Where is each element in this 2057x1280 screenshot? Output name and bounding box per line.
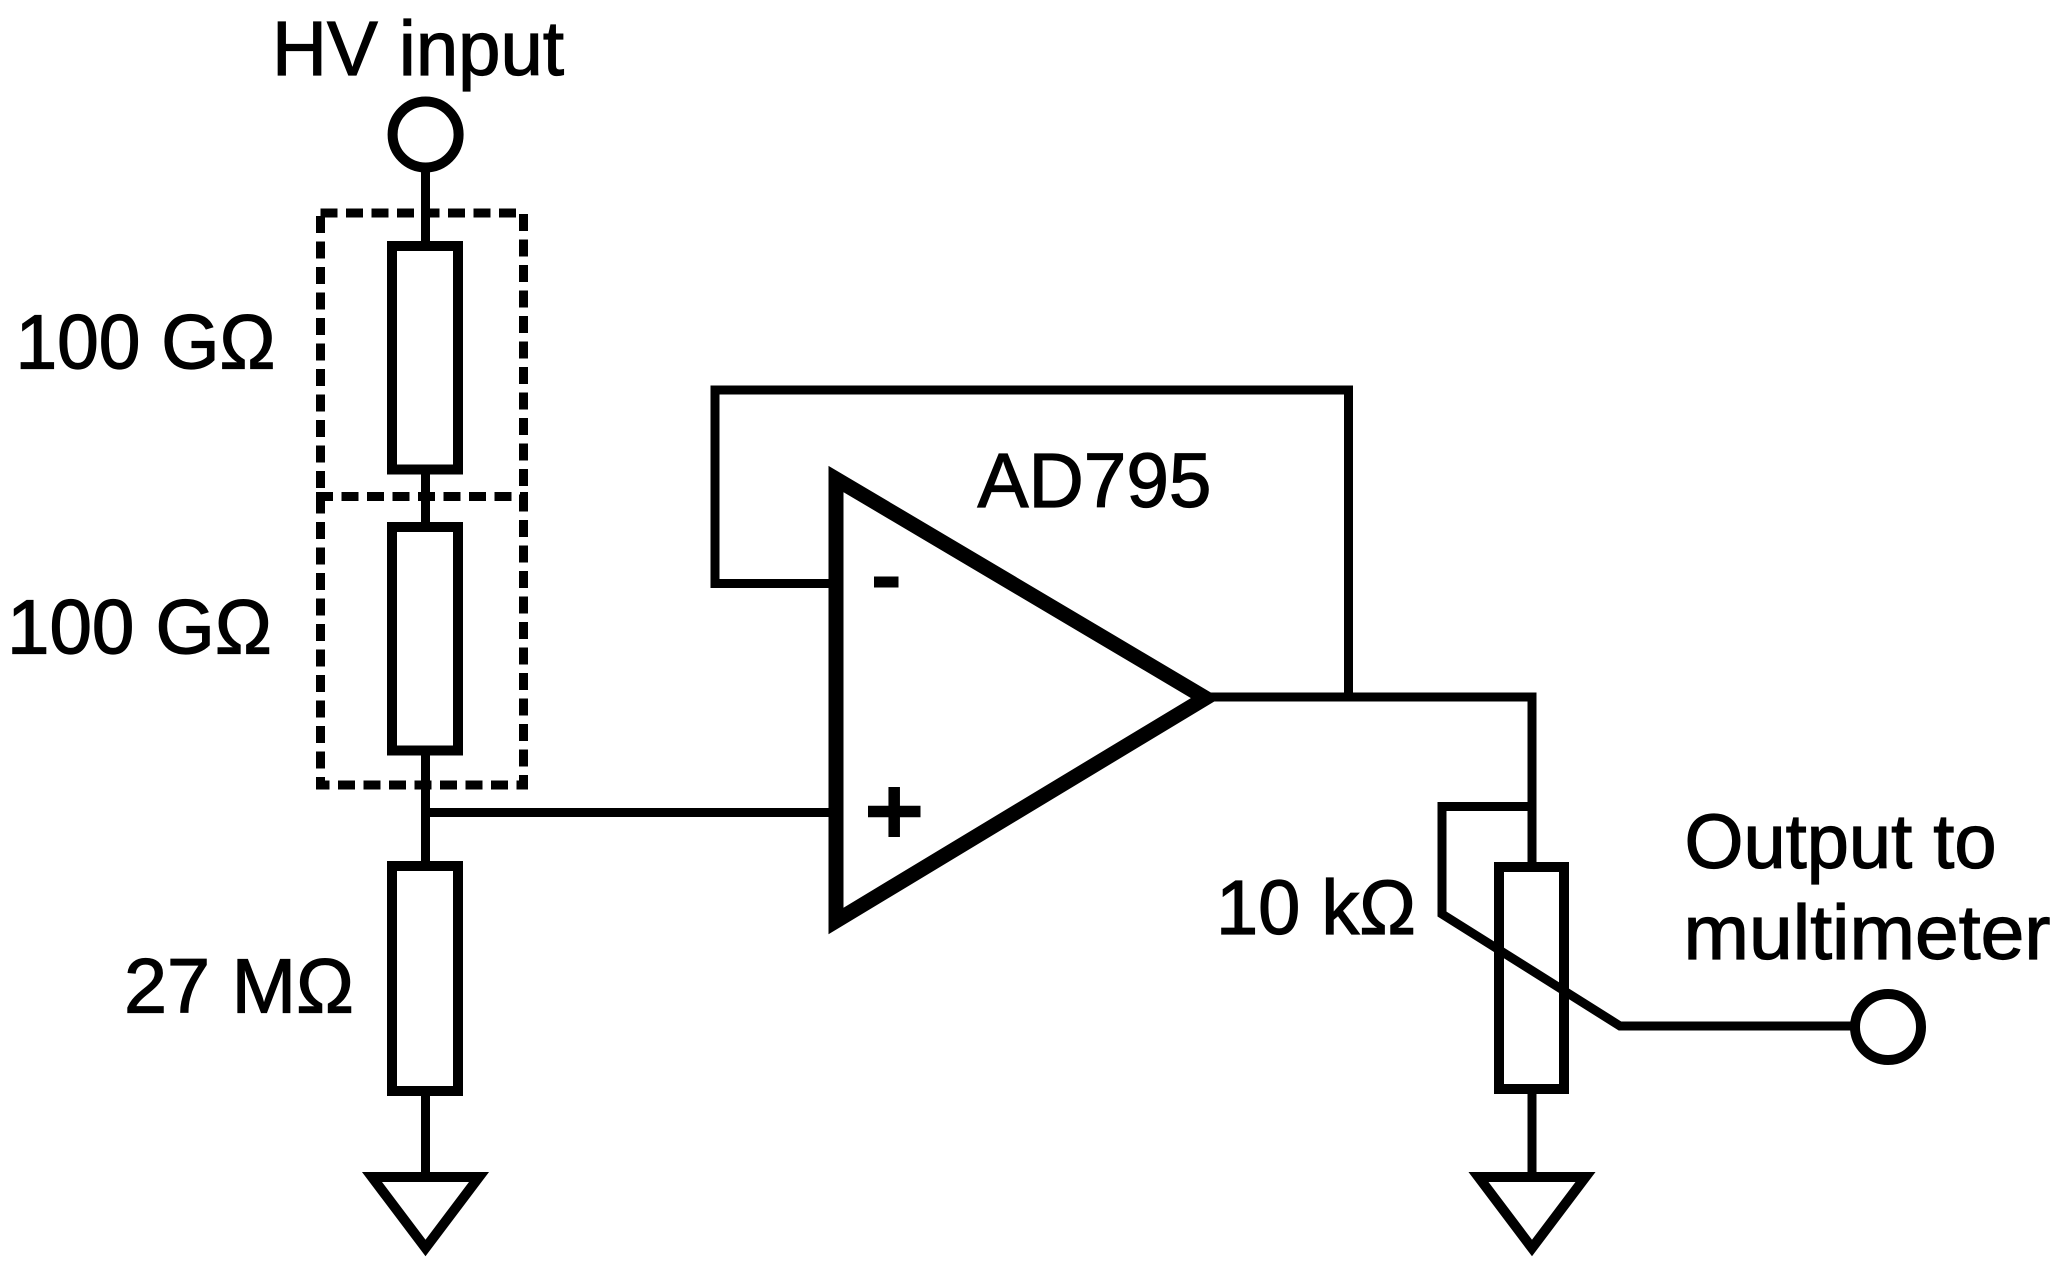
wire R4 to ground	[1528, 1085, 1537, 1177]
wire J1 to R1	[421, 168, 430, 251]
shield box (dashed) around R1 and R2	[321, 213, 524, 785]
svg-text:27 MΩ: 27 MΩ	[124, 944, 354, 1030]
svg-text:100 GΩ: 100 GΩ	[7, 585, 272, 671]
wire node A to op-amp noninverting input	[421, 808, 841, 817]
wire output down to potentiometer R4	[1528, 693, 1537, 871]
op-amp U1 AD795	[836, 479, 1206, 921]
resistor R3 27 MOhm	[392, 866, 458, 1091]
op-amp inverting input minus symbol	[874, 577, 899, 588]
feedback wire from output to inverting input	[715, 390, 1349, 701]
svg-text:Output to: Output to	[1685, 799, 1997, 885]
svg-text:multimeter: multimeter	[1684, 890, 2051, 976]
wire op-amp output	[1206, 693, 1537, 702]
wire R3 to ground	[421, 1087, 430, 1177]
svg-text:100 GΩ: 100 GΩ	[16, 299, 276, 385]
op-amp noninverting input plus symbol	[868, 806, 921, 818]
svg-text:HV input: HV input	[272, 6, 564, 92]
potentiometer R4 wiper arm and wire to output terminal	[1442, 807, 1858, 1027]
wire R1 to R2	[421, 465, 430, 532]
resistor R2 100 GOhm	[392, 527, 458, 751]
svg-text:10 kΩ: 10 kΩ	[1216, 865, 1416, 951]
svg-text:AD795: AD795	[978, 438, 1212, 524]
ground (right)	[1479, 1177, 1586, 1248]
resistor R1 100 GOhm	[392, 246, 458, 470]
wire R2 to node A and R3	[421, 746, 430, 871]
shield box divider (dashed) between R1 and R2	[316, 492, 528, 501]
terminal J1 HV input	[393, 102, 459, 168]
potentiometer R4 10 kOhm body	[1499, 867, 1564, 1089]
ground (left)	[372, 1177, 479, 1248]
terminal J2 output	[1855, 994, 1921, 1060]
